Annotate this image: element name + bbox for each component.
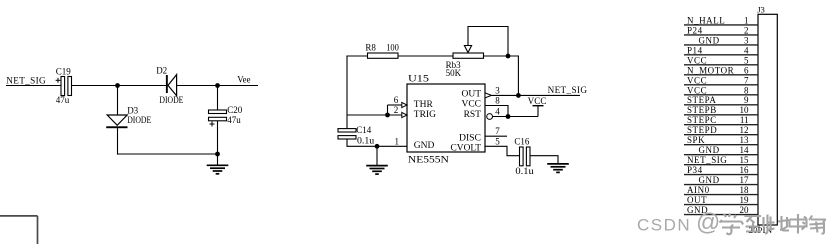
potentiometer Rb3 (446, 26, 484, 78)
svg-text:4: 4 (495, 107, 500, 117)
svg-text:20: 20 (740, 205, 750, 215)
svg-text:7: 7 (495, 126, 500, 136)
wire (217, 86, 219, 111)
svg-text:OUT: OUT (461, 90, 481, 100)
svg-text:4: 4 (744, 45, 749, 55)
capacitor C19 (56, 66, 72, 105)
wire (346, 56, 348, 116)
svg-text:C20: C20 (227, 105, 243, 115)
svg-text:47u: 47u (56, 95, 70, 105)
svg-text:C14: C14 (356, 125, 371, 135)
power port VCC (528, 96, 547, 117)
svg-text:3: 3 (495, 85, 500, 95)
svg-text:9: 9 (744, 95, 749, 105)
wire pin 4 row (493, 116, 539, 118)
svg-text:DIODE: DIODE (159, 95, 183, 105)
svg-text:OUT: OUT (687, 195, 707, 205)
svg-text:Vee: Vee (237, 75, 250, 85)
wire (484, 55, 519, 57)
svg-text:VCC: VCC (687, 85, 707, 95)
ground (366, 146, 388, 174)
svg-text:11: 11 (740, 115, 749, 125)
svg-text:13: 13 (740, 135, 750, 145)
watermark char 学 (720, 214, 744, 235)
svg-text:C16: C16 (514, 137, 529, 147)
pin 2 input arrow (402, 112, 407, 117)
svg-text:15: 15 (740, 155, 750, 165)
svg-text:7: 7 (744, 75, 749, 85)
svg-text:1: 1 (395, 136, 400, 146)
junction node (506, 114, 511, 119)
wire (398, 55, 453, 57)
net label Vee (237, 75, 250, 85)
svg-text:THR: THR (414, 100, 434, 110)
svg-text:NET_SIG: NET_SIG (6, 76, 46, 86)
svg-text:18: 18 (740, 185, 750, 195)
wire pin 8 row (485, 106, 508, 117)
wire pin 6 row (388, 104, 402, 106)
svg-text:CSDN: CSDN (637, 216, 691, 235)
junction node (115, 83, 120, 88)
svg-text:8: 8 (495, 96, 500, 106)
ground (547, 164, 569, 173)
svg-text:AIN0: AIN0 (687, 185, 710, 195)
diode D3 (106, 106, 151, 129)
svg-text:10: 10 (740, 105, 750, 115)
svg-text:P34: P34 (687, 165, 703, 175)
svg-text:0.1u: 0.1u (357, 135, 375, 145)
junction node (385, 113, 390, 118)
svg-text:NET_SIG: NET_SIG (687, 155, 727, 165)
svg-text:STEPD: STEPD (687, 125, 717, 135)
watermark char 到 (745, 215, 768, 234)
svg-text:6: 6 (744, 65, 749, 75)
svg-text:14: 14 (740, 145, 750, 155)
capacitor C16 (514, 137, 534, 176)
connector J3 body (757, 5, 777, 225)
pin 3 output arrow (485, 93, 492, 98)
svg-text:8: 8 (744, 85, 749, 95)
svg-text:5: 5 (495, 136, 500, 146)
svg-text:P14: P14 (687, 45, 703, 55)
junction node (215, 152, 220, 157)
svg-text:N_MOTOR: N_MOTOR (687, 65, 734, 75)
svg-text:P24: P24 (687, 25, 703, 35)
wire (387, 105, 389, 115)
wire pin 3 / net NET_SIG (492, 94, 581, 96)
svg-text:R8: R8 (365, 42, 376, 52)
wire (177, 85, 258, 87)
capacitor C14 (338, 115, 375, 146)
svg-text:VCC: VCC (687, 75, 707, 85)
svg-text:@: @ (696, 209, 720, 236)
svg-text:100: 100 (386, 42, 399, 52)
capacitor C20 (209, 105, 243, 127)
svg-text:19: 19 (740, 195, 750, 205)
svg-text:GND: GND (699, 145, 720, 155)
wire (468, 27, 508, 57)
connector J3 pin wires (684, 25, 758, 215)
wire pin 1 row (346, 145, 407, 147)
pin 4 bubble (487, 114, 493, 120)
svg-text:STEPC: STEPC (687, 115, 717, 125)
watermark char 地 (767, 216, 790, 231)
svg-text:0.1u: 0.1u (515, 166, 534, 176)
wire (117, 128, 119, 154)
junction node (215, 83, 220, 88)
wire (530, 156, 558, 164)
svg-text:NET_SIG: NET_SIG (548, 85, 588, 95)
svg-text:2: 2 (394, 105, 399, 115)
wire (72, 85, 167, 87)
svg-text:1: 1 (744, 15, 749, 25)
svg-text:GND: GND (414, 141, 435, 151)
svg-text:SPK: SPK (687, 135, 705, 145)
svg-text:STEPB: STEPB (687, 105, 717, 115)
svg-text:GND: GND (699, 35, 720, 45)
wire (117, 86, 119, 116)
svg-text:3: 3 (744, 35, 749, 45)
svg-text:DISC: DISC (459, 133, 481, 143)
svg-text:16: 16 (740, 165, 750, 175)
wire pin 2 row (347, 114, 402, 116)
junction node (506, 54, 511, 59)
ground (207, 154, 229, 174)
svg-text:5: 5 (744, 55, 749, 65)
svg-text:NE555N: NE555N (408, 156, 449, 166)
svg-text:VCC: VCC (687, 55, 707, 65)
wire (517, 55, 519, 95)
watermark char 中 (790, 214, 807, 234)
resistor R8 (365, 42, 399, 58)
svg-text:J3: J3 (757, 5, 765, 15)
svg-text:STEPA: STEPA (687, 95, 716, 105)
svg-text:TRIG: TRIG (414, 110, 436, 120)
frame corner (bottom-left partial box) (0, 216, 38, 244)
svg-text:17: 17 (740, 175, 750, 185)
wire (217, 121, 219, 154)
diode D2 (156, 65, 184, 105)
svg-text:D2: D2 (156, 65, 167, 75)
svg-text:12: 12 (740, 125, 749, 135)
svg-text:GND: GND (699, 175, 720, 185)
svg-text:CVOLT: CVOLT (451, 143, 482, 153)
pin 6 input arrow (402, 102, 407, 107)
svg-text:U15: U15 (408, 75, 429, 85)
svg-text:47u: 47u (227, 115, 241, 125)
wire (6, 85, 61, 87)
svg-text:6: 6 (394, 95, 399, 105)
svg-text:VCC: VCC (461, 100, 481, 110)
svg-text:2: 2 (744, 25, 749, 35)
op-amp U15 NE555N body (407, 75, 485, 166)
svg-text:N_HALL: N_HALL (687, 15, 725, 25)
svg-text:VCC: VCC (528, 96, 547, 106)
watermark char 海 (802, 216, 826, 234)
wire pin 7 row (485, 135, 507, 137)
junction node (375, 144, 380, 149)
svg-text:50K: 50K (446, 68, 462, 78)
svg-text:RST: RST (464, 110, 482, 120)
net label NET_SIG (left) (6, 76, 46, 86)
wire pin 5 row (485, 146, 520, 155)
svg-text:C19: C19 (56, 66, 72, 76)
junction node (516, 93, 521, 98)
wire (346, 55, 367, 57)
wire (117, 153, 218, 155)
connector J3 rows (687, 15, 749, 215)
svg-text:DIODE: DIODE (127, 115, 151, 125)
